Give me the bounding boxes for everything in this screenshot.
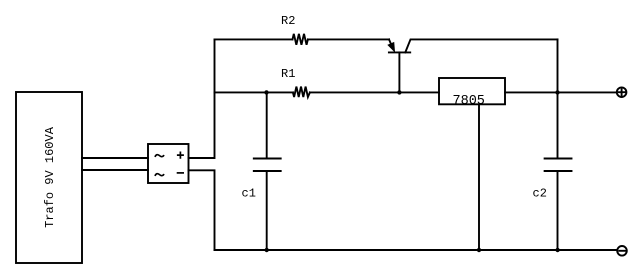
svg-text:7805: 7805 — [453, 94, 485, 109]
svg-text:Trafo 9V 160VA: Trafo 9V 160VA — [43, 126, 57, 228]
svg-text:c2: c2 — [533, 187, 547, 201]
svg-text:c1: c1 — [242, 187, 256, 201]
svg-text:R1: R1 — [281, 67, 295, 81]
svg-text:R2: R2 — [281, 14, 295, 28]
